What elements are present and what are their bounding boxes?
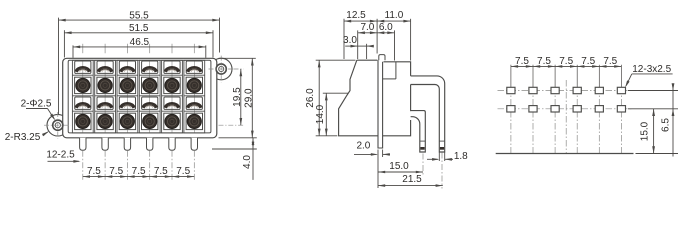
dimension 2.0 [354, 140, 390, 155]
mounting ear top-right (R3.25) [210, 58, 232, 80]
dimension 26.0 extension lines [316, 60, 356, 136]
dimension 3.0 [343, 35, 374, 47]
mounting ear bottom-left (R3.25) [47, 114, 69, 136]
footprint pad column 3 row 1 [551, 87, 559, 93]
terminal unit column 6 row 1 screw [186, 77, 202, 93]
footprint column 6 extension and centerline [620, 65, 622, 154]
terminal unit column 5 frame [162, 60, 183, 133]
column 4 centerline [149, 44, 151, 181]
terminal unit column 6 row 2 screw [186, 113, 202, 129]
svg-text:11.0: 11.0 [385, 10, 404, 21]
terminal unit column 3 row 2 screw [119, 113, 135, 129]
footprint pad column 6 row 1 [617, 87, 625, 93]
dimension 19.5 extension lines [219, 69, 244, 125]
label 12-2.5 leader [46, 149, 80, 162]
dimension 29.0 [243, 58, 254, 138]
column 1 centerline [82, 44, 84, 181]
dimension 29.0 extension lines [219, 58, 257, 138]
svg-text:4.0: 4.0 [242, 155, 253, 169]
svg-text:12-3x2.5: 12-3x2.5 [632, 64, 671, 75]
dimension 12.5/11.0 extension lines [344, 19, 411, 61]
dimension 14.0 [315, 93, 328, 136]
footprint board edge line [496, 153, 634, 155]
footprint dimension 7.5 segment 4 [577, 56, 599, 68]
footprint pad column 1 row 2 [507, 106, 515, 112]
terminal unit column 4 row 1 screw [142, 77, 158, 93]
terminal unit column 3 frame [117, 60, 138, 133]
footprint pad column 4 row 1 [573, 87, 581, 93]
terminal unit column 5 row 1 screw [164, 77, 180, 93]
svg-text:14.0: 14.0 [315, 104, 326, 124]
terminal unit column 5 row 2 screw [164, 113, 180, 129]
side view internal mold line [383, 62, 396, 79]
dimension 15.0 plate extension [377, 157, 379, 188]
column 4 centerline through body [149, 60, 151, 132]
column 1 centerline through body [82, 60, 84, 132]
footprint view centerline [565, 80, 567, 154]
terminal unit column 2 row 2 wire clamp [97, 97, 113, 109]
solder pin 1 front view [80, 138, 86, 151]
svg-text:1.8: 1.8 [454, 151, 468, 162]
svg-text:21.5: 21.5 [402, 174, 422, 185]
svg-text:7.5: 7.5 [87, 166, 101, 177]
footprint pad column 5 row 1 [595, 87, 603, 93]
column 2 centerline [104, 44, 106, 181]
svg-text:12.5: 12.5 [346, 10, 366, 21]
column 3 centerline through body [126, 60, 128, 132]
footprint dimension 15.0 [640, 109, 655, 154]
side view latch tab [379, 55, 385, 61]
svg-text:12-2.5: 12-2.5 [46, 149, 75, 160]
terminal unit column 4 frame [139, 60, 160, 133]
terminal unit column 4 row 1 wire clamp [142, 61, 158, 73]
terminal unit column 2 row 2 screw [97, 113, 113, 129]
ear hole top-right (Φ2.5) [216, 64, 226, 74]
footprint column 2 extension and centerline [532, 65, 534, 154]
svg-text:7.5: 7.5 [154, 166, 168, 177]
terminal unit column 4 row 2 screw [142, 113, 158, 129]
svg-text:46.5: 46.5 [130, 37, 150, 48]
footprint column 4 extension and centerline [576, 65, 578, 154]
dimension 21.5 extension line [441, 153, 443, 189]
footprint column 5 extension and centerline [598, 65, 600, 154]
dimension 7.5 segment 4 [150, 166, 172, 178]
dimension 4.0 extension line [212, 148, 257, 150]
column 5 centerline [171, 44, 173, 181]
solder pin 4 front view [147, 138, 153, 151]
column 3 centerline [126, 44, 128, 181]
label 12-3x2.5 leader [625, 64, 672, 87]
solder pin 5 front view [169, 138, 175, 151]
dimension 26.0 [305, 60, 320, 136]
ear hole bottom-left (Φ2.5) [53, 120, 63, 130]
dimension 1.8 extension lines [439, 153, 444, 162]
dimension 55.5 [59, 10, 220, 21]
dimension 7.0/6.0 extension lines [358, 30, 395, 60]
footprint pad column 5 row 2 [595, 106, 603, 112]
svg-text:6.5: 6.5 [660, 118, 671, 132]
svg-text:55.5: 55.5 [129, 10, 149, 21]
svg-text:3.0: 3.0 [343, 35, 357, 46]
side view mounting plate [378, 60, 383, 148]
svg-text:7.5: 7.5 [176, 166, 190, 177]
terminal unit column 3 row 2 wire clamp [119, 97, 135, 109]
terminal unit column 1 row 2 wire clamp [75, 97, 91, 109]
svg-text:7.5: 7.5 [581, 56, 595, 67]
footprint row 2 centerline [498, 108, 632, 110]
lower solder pin side view [411, 111, 426, 152]
footprint dimension chain 7.5 line [511, 65, 622, 67]
dimension 3.0 extension line [366, 44, 368, 59]
solder pin 6 front view [191, 138, 197, 151]
footprint pad column 2 row 2 [529, 106, 537, 112]
footprint dimension 7.5 segment 5 [599, 56, 621, 68]
footprint dimension extension lines right [628, 91, 678, 154]
terminal unit column 1 row 2 screw [75, 113, 91, 129]
dimension 1.8 [427, 151, 468, 162]
terminal unit column 1 frame [72, 60, 93, 133]
dimension 6.0 [377, 22, 394, 34]
terminal unit column 6 frame [184, 60, 205, 133]
column 6 centerline [193, 44, 195, 181]
front view body outer outline [63, 58, 217, 138]
dimension 55.5 extension lines [59, 18, 220, 115]
terminal unit column 2 row 1 screw [97, 77, 113, 93]
column 2 centerline through body [104, 60, 106, 132]
footprint pad column 4 row 2 [573, 106, 581, 112]
dimension 2.0 extension lines [378, 150, 383, 158]
label 2-Φ2.5 leader [21, 98, 56, 120]
terminal unit column 1 row 1 screw [75, 77, 91, 93]
footprint dimension 7.5 segment 1 [511, 56, 533, 68]
dimension 15.0 extension line [422, 154, 424, 175]
ear bottom-left centerlines [44, 112, 71, 139]
terminal unit column 5 row 1 wire clamp [164, 61, 180, 73]
footprint dimension 7.5 segment 3 [555, 56, 577, 68]
terminal unit column 2 frame [95, 60, 116, 133]
footprint pad column 6 row 2 [617, 106, 625, 112]
svg-text:6.0: 6.0 [379, 22, 393, 33]
label 2-R3.25 leader [5, 131, 49, 143]
dimension 11.0 [377, 10, 411, 22]
solder pin 2 front view [102, 138, 108, 151]
terminal unit column 6 row 1 wire clamp [186, 61, 202, 73]
footprint pad column 3 row 2 [551, 106, 559, 112]
dimension 46.5 extension lines [73, 45, 206, 57]
svg-text:15.0: 15.0 [389, 161, 409, 172]
svg-text:15.0: 15.0 [640, 121, 651, 141]
footprint dimension 6.5 [660, 83, 674, 156]
terminal unit column 1 row 1 wire clamp [75, 61, 91, 73]
dimension 46.5 [73, 37, 206, 48]
terminal unit column 4 row 2 wire clamp [142, 97, 158, 109]
dimension 15.0 [378, 161, 423, 173]
svg-text:7.5: 7.5 [603, 56, 617, 67]
svg-text:2.0: 2.0 [356, 140, 370, 151]
front view body inner rect [68, 60, 211, 133]
svg-text:7.0: 7.0 [360, 22, 374, 33]
svg-text:7.5: 7.5 [132, 166, 146, 177]
dimension 7.5 segment 2 [105, 166, 127, 178]
footprint pad column 1 row 1 [507, 87, 515, 93]
footprint dimension 7.5 segment 2 [533, 56, 555, 68]
dimension 7.0 [358, 22, 377, 34]
dimension 7.5 segment 3 [127, 166, 149, 178]
svg-text:7.5: 7.5 [515, 56, 529, 67]
column 6 centerline through body [193, 60, 195, 132]
terminal unit column 3 row 1 screw [119, 77, 135, 93]
dimension 21.5 [378, 174, 443, 187]
footprint column 3 extension and centerline [554, 65, 556, 154]
dimension 12.5 [344, 10, 377, 22]
footprint row 1 centerline [498, 90, 632, 92]
dimension 19.5 [232, 69, 243, 125]
dimension 7.5 segment 5 [172, 166, 194, 178]
footprint column 1 extension and centerline [510, 65, 512, 154]
svg-text:26.0: 26.0 [305, 88, 316, 108]
ear top-right centerlines [209, 56, 234, 83]
svg-text:7.5: 7.5 [559, 56, 573, 67]
column 5 centerline through body [171, 60, 173, 132]
upper solder pin side view [411, 76, 445, 152]
solder pin 3 front view [124, 138, 130, 151]
dimension chain 7.5 (pin pitch) line [83, 176, 195, 178]
svg-text:29.0: 29.0 [243, 88, 254, 108]
svg-text:7.5: 7.5 [537, 56, 551, 67]
dimension 51.5 [64, 23, 213, 34]
dimension 7.5 segment 1 [83, 166, 105, 178]
footprint pad column 2 row 1 [529, 87, 537, 93]
svg-text:7.5: 7.5 [109, 166, 123, 177]
svg-text:2-R3.25: 2-R3.25 [5, 132, 41, 143]
side view body outline [339, 60, 411, 136]
dimension 14.0 extension line [323, 92, 349, 94]
svg-text:2-Φ2.5: 2-Φ2.5 [21, 98, 52, 109]
dimension 4.0 [242, 138, 255, 180]
terminal unit column 6 row 2 wire clamp [186, 97, 202, 109]
terminal unit column 3 row 1 wire clamp [119, 61, 135, 73]
dimension 51.5 extension lines [64, 30, 213, 57]
terminal unit column 2 row 1 wire clamp [97, 61, 113, 73]
svg-text:19.5: 19.5 [232, 87, 243, 107]
svg-text:51.5: 51.5 [129, 23, 149, 34]
terminal unit column 5 row 2 wire clamp [164, 97, 180, 109]
